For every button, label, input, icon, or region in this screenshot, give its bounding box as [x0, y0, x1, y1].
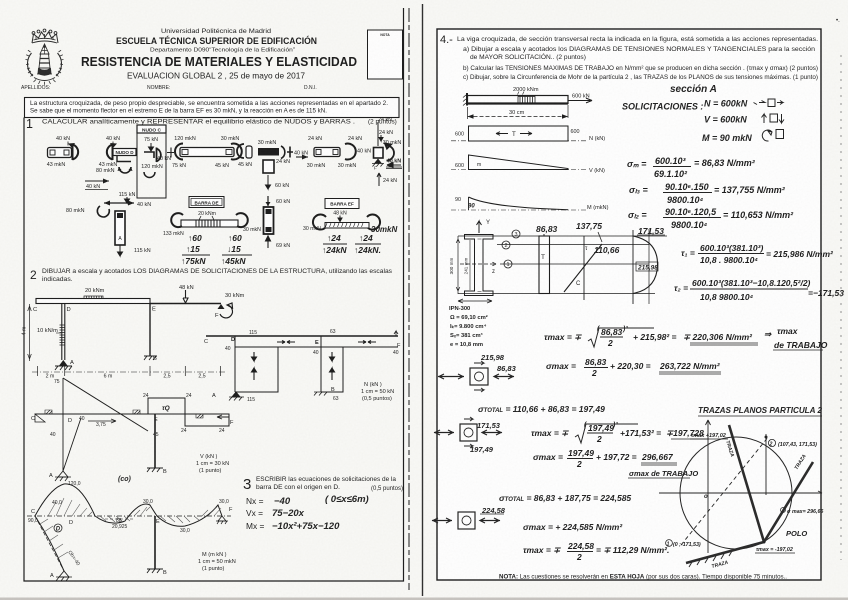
handwritten reaction sums right	[221, 233, 252, 266]
I beam flanges and web	[465, 235, 494, 296]
dashed diameter	[681, 436, 769, 545]
thick traza line up-right	[764, 462, 813, 542]
end element F	[372, 117, 402, 186]
D circled handwritten	[54, 524, 62, 532]
fbd element G1 pill with moment arc	[47, 136, 78, 168]
NUDO E cluster	[258, 140, 371, 189]
small shape at C	[35, 414, 45, 422]
right page scan edge line	[422, 4, 424, 596]
support B	[144, 356, 157, 360]
circled 2 coordinates label	[768, 439, 775, 446]
eq sigma M3	[629, 182, 786, 205]
eq tau max particle 2	[531, 422, 709, 444]
eq tau 2	[674, 278, 844, 302]
F support triangle and 30 kNm moment	[218, 304, 225, 309]
4 m dimension	[28, 304, 32, 361]
rect above baseline E to mid	[148, 398, 185, 414]
115 kN top element	[66, 192, 151, 256]
crown	[32, 32, 58, 43]
link element	[237, 144, 252, 168]
fibre level lines	[458, 235, 667, 237]
D rectangle	[235, 336, 278, 392]
book base	[38, 69, 51, 76]
particle 1	[438, 361, 514, 392]
bottom scan shadow	[0, 598, 848, 600]
nota box top right	[368, 30, 403, 79]
beam E-F line	[150, 303, 221, 305]
pill EF right	[307, 136, 362, 169]
shear stress triangle	[583, 236, 585, 300]
sigma max label right	[781, 508, 786, 513]
left page outer box	[24, 8, 404, 581]
F small arrow	[394, 331, 398, 336]
problem 3	[243, 476, 403, 532]
support A	[232, 392, 240, 397]
arrow pairs on band	[277, 341, 295, 344]
I-beam section with stress diagrams	[449, 220, 667, 304]
E rectangle	[321, 336, 343, 392]
support A	[59, 360, 68, 366]
Mohr circle diagram	[659, 420, 823, 570]
sigma axis	[659, 491, 822, 493]
fixed support left	[466, 93, 468, 106]
circled fibre numbers	[502, 230, 520, 268]
hatched tick boxes	[45, 410, 52, 414]
Y axis	[477, 221, 482, 233]
M diagram	[27, 481, 236, 581]
NUDO C tall box	[137, 125, 171, 198]
M curve	[35, 484, 222, 526]
support B	[314, 392, 330, 396]
eq tau max particle 3	[523, 541, 669, 562]
eq tau 1	[681, 243, 834, 265]
eq sigma M2	[628, 207, 794, 230]
thick traza line bottom-left with hatching	[686, 542, 764, 563]
rect below baseline mid to F	[185, 414, 229, 426]
point dots	[763, 541, 766, 544]
statement box	[25, 98, 400, 118]
handwritten sums	[322, 233, 381, 255]
bottom dimension	[458, 299, 492, 303]
z axis	[460, 262, 496, 266]
eq sigma N	[627, 156, 756, 179]
parabolic tau curve	[632, 230, 634, 304]
thick traza line up-left	[729, 425, 764, 542]
curve C down to A	[35, 516, 64, 571]
V diagonal line	[63, 378, 148, 431]
E column to B	[154, 414, 156, 468]
eq sigma max particle 1	[546, 357, 721, 378]
beam C-E double line	[36, 299, 150, 304]
vertical bar element S	[264, 196, 291, 249]
frame structure diagram	[22, 285, 245, 380]
right margin scan edge dashed	[840, 55, 842, 560]
bottom dimension line	[38, 366, 221, 376]
eq sigma max particle 2	[533, 448, 698, 478]
hanging box below nudo E	[263, 160, 274, 173]
vertical bar A	[115, 211, 125, 245]
circle	[680, 437, 792, 549]
particle 3	[432, 512, 500, 529]
tower antenna	[40, 44, 49, 54]
particle 2	[434, 417, 502, 448]
N diagram	[451, 126, 605, 142]
university crest logo	[26, 29, 64, 85]
fbd element G2 hook and NUDO D label	[85, 136, 136, 190]
normal stress block	[539, 236, 550, 294]
IPN-300 data block	[449, 306, 488, 348]
point 1 label bottom left	[666, 540, 673, 547]
column E-B	[149, 304, 151, 357]
wreath	[27, 53, 33, 76]
BARRA EF group	[303, 199, 397, 256]
BARRA DE group	[163, 197, 261, 267]
left page scan edge dashed	[408, 8, 410, 590]
E column to B	[154, 516, 156, 569]
V diagram	[31, 378, 234, 483]
N diagram	[204, 329, 401, 403]
handwritten reaction sums left	[181, 233, 210, 266]
D column to A	[63, 414, 81, 471]
column D-A double line	[62, 304, 65, 361]
beam DE pill	[167, 136, 242, 169]
F support	[218, 516, 226, 521]
eq tau max particle 1	[544, 326, 828, 350]
section dimension 300mm	[456, 236, 460, 294]
beam diagram	[463, 87, 592, 119]
tower body	[39, 54, 50, 68]
hatch on M curve	[48, 498, 221, 523]
tau axis	[706, 420, 711, 553]
V diagram	[451, 155, 605, 174]
M diagram	[451, 197, 609, 211]
vertical chord at sigma point 2	[765, 434, 767, 495]
right page border box	[437, 29, 821, 580]
